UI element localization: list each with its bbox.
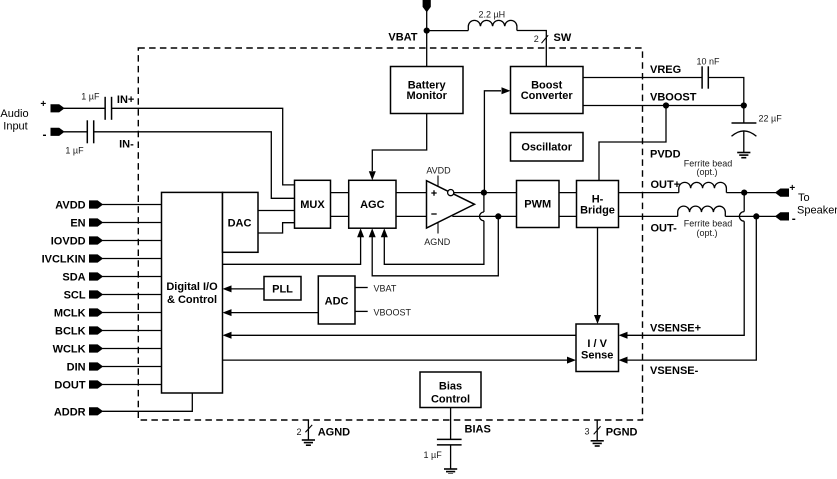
wire MCLK to Digital I/O bbox=[102, 312, 161, 314]
svg-text:(opt.): (opt.) bbox=[696, 228, 717, 238]
capacitor 1 uF (IN-) bbox=[86, 120, 88, 143]
block MUX bbox=[295, 180, 331, 228]
svg-text:3: 3 bbox=[584, 427, 589, 437]
wire Digital I/O to I/V Sense bbox=[223, 359, 568, 361]
svg-text:MUX: MUX bbox=[300, 199, 325, 211]
wire SDA to Digital I/O bbox=[102, 276, 161, 278]
svg-text:& Control: & Control bbox=[167, 294, 217, 306]
capacitor 22 uF (polarized) bbox=[743, 106, 745, 124]
svg-text:Ferrite bead: Ferrite bead bbox=[684, 219, 733, 229]
svg-text:SW: SW bbox=[554, 32, 572, 44]
wire comparator output to PWM bbox=[454, 192, 517, 194]
wire bead to speaker + bbox=[726, 192, 775, 194]
wire DOUT to Digital I/O bbox=[102, 384, 161, 386]
svg-text:DOUT: DOUT bbox=[54, 380, 85, 392]
svg-text:DAC: DAC bbox=[228, 218, 252, 230]
speaker + terminal pin bbox=[776, 189, 789, 196]
svg-text:Control: Control bbox=[431, 394, 470, 406]
wire BIAS cap to ground bbox=[450, 445, 452, 469]
wire Boost to VBOOST bbox=[583, 105, 744, 107]
svg-text:EN: EN bbox=[70, 218, 85, 230]
svg-text:VBAT: VBAT bbox=[374, 284, 397, 294]
svg-text:2: 2 bbox=[534, 34, 539, 44]
block DAC bbox=[223, 192, 259, 252]
junction VBOOST/PVDD branch bbox=[663, 102, 669, 108]
svg-text:Digital I/O: Digital I/O bbox=[166, 281, 218, 293]
block Battery Monitor bbox=[391, 67, 464, 114]
wire BCLK to Digital I/O bbox=[102, 330, 161, 332]
comparator AGND supply bbox=[437, 222, 439, 233]
svg-text:To: To bbox=[798, 192, 810, 204]
wire AVDD to Digital I/O bbox=[102, 204, 161, 206]
wire MUX to AGC (upper) bbox=[331, 192, 349, 194]
block Digital I/O & Control bbox=[162, 192, 223, 393]
block I/V Sense bbox=[576, 324, 619, 372]
comparator + symbol bbox=[431, 190, 436, 195]
block PWM bbox=[517, 181, 560, 228]
wire Digital I/O to AGC bbox=[223, 233, 361, 264]
speaker - terminal pin bbox=[776, 213, 789, 220]
svg-text:BCLK: BCLK bbox=[55, 326, 86, 338]
svg-text:Oscillator: Oscillator bbox=[521, 142, 572, 154]
wire VBAT to inductor bbox=[427, 30, 469, 32]
wire - rail feedback to AGC bbox=[372, 216, 498, 275]
capacitor 1 uF (IN+) bbox=[104, 97, 106, 120]
wire IOVDD to Digital I/O bbox=[102, 240, 161, 242]
wire bead to speaker - bbox=[725, 215, 775, 217]
svg-text:VSENSE-: VSENSE- bbox=[650, 365, 699, 377]
block H-Bridge bbox=[577, 181, 619, 228]
wire OUT- to VSENSE- bbox=[628, 216, 757, 360]
svg-text:SDA: SDA bbox=[62, 272, 85, 284]
svg-text:1 µF: 1 µF bbox=[424, 450, 443, 460]
svg-text:VBAT: VBAT bbox=[388, 32, 417, 44]
svg-text:IVCLKIN: IVCLKIN bbox=[42, 254, 86, 266]
wire IN+ to MUX bbox=[112, 108, 295, 185]
svg-text:PLL: PLL bbox=[272, 283, 293, 295]
wire AGC to comparator + input bbox=[396, 192, 427, 194]
wire Boost to VREG bbox=[583, 77, 702, 79]
wire Battery Monitor to AGC (gain control) bbox=[372, 114, 426, 172]
pin-count slash (AGND) bbox=[305, 425, 312, 432]
wire I/V Sense to Digital I/O bbox=[231, 334, 576, 336]
svg-text:VSENSE+: VSENSE+ bbox=[650, 323, 701, 335]
wire ADDR to Digital I/O bbox=[102, 393, 192, 411]
svg-text:OUT+: OUT+ bbox=[651, 179, 681, 191]
svg-text:IOVDD: IOVDD bbox=[51, 236, 86, 248]
svg-text:PGND: PGND bbox=[606, 426, 638, 438]
svg-text:BIAS: BIAS bbox=[465, 424, 491, 436]
junction OUT+/VSENSE+ bbox=[741, 190, 747, 196]
block AGC bbox=[349, 180, 396, 228]
svg-text:(opt.): (opt.) bbox=[696, 167, 717, 177]
svg-text:IN-: IN- bbox=[119, 139, 134, 151]
svg-text:2: 2 bbox=[296, 427, 301, 437]
ferrite bead (OUT+, optional) bbox=[679, 182, 727, 192]
svg-text:VREG: VREG bbox=[650, 64, 681, 76]
wire comparator output to Boost Converter bbox=[484, 91, 501, 193]
wire PLL to Digital I/O bbox=[231, 288, 264, 290]
wire Bias Control to BIAS cap bbox=[450, 408, 452, 440]
svg-text:Monitor: Monitor bbox=[407, 90, 448, 102]
ground (BIAS) bbox=[444, 468, 457, 470]
audio input + terminal pin bbox=[51, 105, 64, 112]
ADC input tick VBAT bbox=[355, 287, 368, 289]
wire PWM to H-Bridge (lower) bbox=[559, 215, 577, 217]
wire VBAT stem bbox=[426, 11, 428, 67]
svg-text:1 µF: 1 µF bbox=[65, 146, 84, 156]
svg-text:-: - bbox=[43, 128, 47, 142]
svg-text:AGND: AGND bbox=[318, 426, 350, 438]
VBAT terminal pin bbox=[423, 0, 430, 12]
wire audio+ to cap bbox=[64, 107, 106, 109]
wire audio- to cap bbox=[64, 131, 87, 133]
svg-text:Bias: Bias bbox=[439, 381, 462, 393]
wire H-Bridge to OUT- bbox=[619, 215, 678, 217]
wire DIN to Digital I/O bbox=[102, 366, 161, 368]
svg-text:VBOOST: VBOOST bbox=[650, 91, 697, 103]
block Boost Converter bbox=[511, 67, 584, 114]
wire WCLK to Digital I/O bbox=[102, 348, 161, 350]
wire EN to Digital I/O bbox=[102, 222, 161, 224]
svg-text:PVDD: PVDD bbox=[650, 149, 681, 161]
svg-text:10 nF: 10 nF bbox=[696, 57, 720, 67]
junction VBOOST cap node bbox=[741, 102, 747, 108]
svg-text:IN+: IN+ bbox=[117, 94, 134, 106]
wire H-Bridge to I/V Sense bbox=[597, 228, 599, 320]
svg-text:AGND: AGND bbox=[424, 237, 451, 247]
wire AGC to comparator - input bbox=[396, 215, 427, 217]
svg-text:WCLK: WCLK bbox=[53, 344, 86, 356]
svg-text:Speaker: Speaker bbox=[797, 205, 837, 217]
wire MUX to AGC (lower) bbox=[331, 215, 349, 217]
wire SCL to Digital I/O bbox=[102, 294, 161, 296]
wire IVCLKIN to Digital I/O bbox=[102, 258, 161, 260]
op-amp comparator U1 bbox=[427, 181, 475, 228]
svg-text:+: + bbox=[789, 183, 795, 194]
audio input - terminal pin bbox=[51, 128, 64, 135]
svg-text:PWM: PWM bbox=[524, 199, 551, 211]
svg-text:AVDD: AVDD bbox=[426, 166, 451, 176]
wire 22 uF to ground bbox=[743, 131, 745, 153]
svg-text:AVDD: AVDD bbox=[55, 200, 85, 212]
svg-text:VBOOST: VBOOST bbox=[374, 308, 412, 318]
pin-count slash (PGND) bbox=[594, 426, 601, 434]
junction - rail bbox=[495, 213, 501, 219]
svg-text:22 µF: 22 µF bbox=[759, 114, 783, 124]
svg-text:DIN: DIN bbox=[67, 362, 86, 374]
svg-text:OUT-: OUT- bbox=[651, 223, 678, 235]
wire ADC to Digital I/O bbox=[231, 312, 318, 314]
ferrite bead (OUT-, optional) bbox=[678, 206, 726, 216]
ground (22 uF) bbox=[737, 152, 750, 154]
svg-text:ADDR: ADDR bbox=[54, 406, 86, 418]
wire IN- to MUX bbox=[94, 132, 295, 199]
svg-text:ADC: ADC bbox=[325, 295, 349, 307]
wire H-Bridge to OUT+ bbox=[619, 192, 679, 194]
ground PGND bbox=[591, 440, 604, 442]
svg-text:Converter: Converter bbox=[521, 90, 574, 102]
wire comparator output feedback to AGC (with hop) bbox=[483, 193, 485, 212]
IC boundary (dashed box) bbox=[138, 48, 642, 420]
wire DAC to MUX (upper) bbox=[258, 210, 295, 212]
wire - rail to PWM bbox=[452, 215, 516, 217]
svg-text:AGC: AGC bbox=[360, 199, 385, 211]
block Oscillator bbox=[511, 133, 584, 162]
svg-text:SCL: SCL bbox=[64, 290, 86, 302]
pin-count slash at SW bbox=[542, 35, 549, 43]
junction comparator output bbox=[481, 190, 487, 196]
inductor 2.2 uH bbox=[468, 20, 517, 30]
svg-text:2.2 µH: 2.2 µH bbox=[478, 10, 505, 20]
block ADC bbox=[318, 276, 355, 324]
svg-text:+: + bbox=[40, 99, 46, 110]
capacitor 10 nF bbox=[701, 66, 703, 88]
comparator - symbol bbox=[431, 213, 436, 215]
wire VBOOST to PVDD / H-Bridge bbox=[599, 106, 666, 181]
ADC input tick VBOOST bbox=[355, 310, 368, 312]
wire DAC to MUX (lower, stepped) bbox=[258, 223, 295, 233]
svg-text:I / V: I / V bbox=[587, 338, 607, 350]
AGND pin stem bbox=[307, 421, 309, 441]
wire OUT+ to VSENSE+ (with hop over OUT-) bbox=[743, 193, 745, 212]
PGND pin stem bbox=[596, 421, 598, 441]
svg-text:MCLK: MCLK bbox=[54, 308, 86, 320]
svg-text:-: - bbox=[792, 212, 796, 226]
svg-text:Sense: Sense bbox=[581, 350, 613, 362]
block Bias Control bbox=[420, 372, 481, 408]
capacitor 1 uF (BIAS) bbox=[437, 438, 462, 440]
junction VBAT node bbox=[424, 28, 430, 34]
junction OUT-/VSENSE- bbox=[753, 213, 759, 219]
wire inductor to SW bbox=[517, 31, 546, 67]
block PLL bbox=[264, 277, 301, 301]
svg-text:1 µF: 1 µF bbox=[81, 92, 100, 102]
comparator output bubble bbox=[448, 190, 454, 196]
svg-text:Bridge: Bridge bbox=[580, 205, 615, 217]
svg-text:Audio: Audio bbox=[0, 108, 28, 120]
wire 10 nF to VBOOST node bbox=[708, 78, 744, 106]
svg-text:Input: Input bbox=[3, 121, 27, 133]
ground AGND bbox=[302, 439, 315, 441]
wire PWM to H-Bridge (upper) bbox=[559, 192, 577, 194]
